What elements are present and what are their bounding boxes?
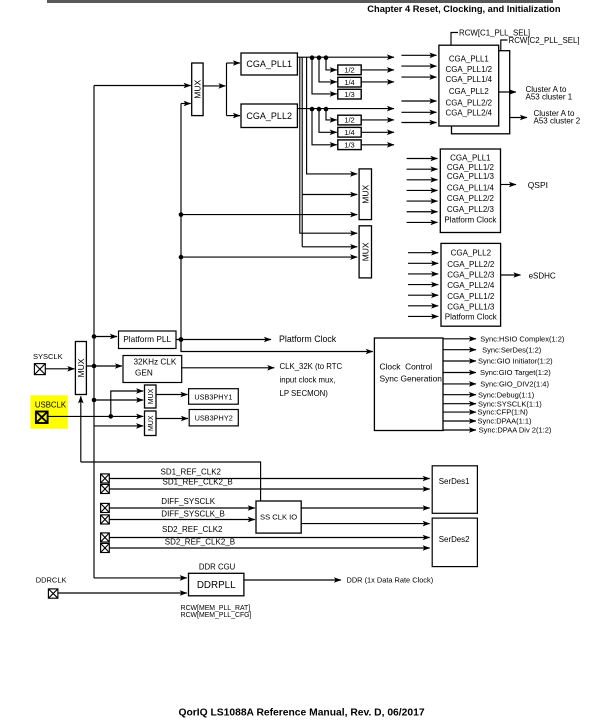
svg-text:CGA_PLL1: CGA_PLL1	[246, 59, 292, 69]
svg-text:CGA_PLL2: CGA_PLL2	[246, 111, 292, 121]
svg-text:eSDHC: eSDHC	[529, 271, 556, 280]
svg-text:DDR CGU: DDR CGU	[199, 563, 236, 572]
svg-text:Sync:DPAA(1:1): Sync:DPAA(1:1)	[478, 417, 533, 426]
svg-text:CGA_PLL1/2: CGA_PLL1/2	[447, 292, 495, 301]
svg-text:SD2_REF_CLK2_B: SD2_REF_CLK2_B	[165, 537, 235, 546]
svg-text:CGA_PLL2/2: CGA_PLL2/2	[447, 194, 495, 203]
svg-text:DDR (1x Data Rate Clock): DDR (1x Data Rate Clock)	[347, 576, 434, 585]
svg-text:MUX: MUX	[148, 388, 155, 404]
svg-text:Sync Generation: Sync Generation	[380, 373, 443, 383]
svg-text:MUX: MUX	[148, 415, 155, 431]
svg-text:DIFF_SYSCLK: DIFF_SYSCLK	[161, 497, 215, 506]
svg-text:1/4: 1/4	[344, 78, 354, 87]
svg-text:CGA_PLL2: CGA_PLL2	[451, 249, 492, 258]
svg-text:Platform Clock: Platform Clock	[444, 215, 497, 224]
svg-text:Platform Clock: Platform Clock	[445, 312, 498, 321]
svg-text:1/3: 1/3	[344, 140, 354, 149]
svg-text:CGA_PLL2/3: CGA_PLL2/3	[447, 205, 495, 214]
svg-text:RCW[MEM_PLL_RAT]: RCW[MEM_PLL_RAT]	[181, 605, 251, 612]
svg-text:Clock Control: Clock Control	[380, 361, 433, 371]
svg-text:Platform Clock: Platform Clock	[279, 334, 337, 344]
svg-text:Chapter 4 Reset, Clocking, and: Chapter 4 Reset, Clocking, and Initializ…	[367, 4, 561, 14]
svg-text:USB3PHY1: USB3PHY1	[194, 392, 232, 401]
svg-text:Sync:DPAA Div 2(1:2): Sync:DPAA Div 2(1:2)	[479, 426, 552, 435]
svg-text:LP SECMON): LP SECMON)	[280, 389, 329, 398]
svg-text:Sync:Debug(1:1): Sync:Debug(1:1)	[478, 390, 535, 399]
svg-text:SerDes2: SerDes2	[439, 535, 470, 544]
svg-text:A53 cluster 2: A53 cluster 2	[534, 116, 581, 125]
svg-text:input clock mux,: input clock mux,	[280, 375, 336, 384]
svg-text:CGA_PLL1/3: CGA_PLL1/3	[447, 172, 495, 181]
svg-text:RCW[C2_PLL_SEL]: RCW[C2_PLL_SEL]	[509, 36, 580, 45]
svg-text:CGA_PLL2/4: CGA_PLL2/4	[447, 281, 495, 290]
svg-text:DDRPLL: DDRPLL	[197, 580, 236, 591]
svg-text:1/4: 1/4	[344, 128, 354, 137]
svg-text:USB3PHY2: USB3PHY2	[195, 414, 233, 423]
svg-text:CGA_PLL1: CGA_PLL1	[449, 55, 489, 64]
svg-text:MUX: MUX	[192, 80, 202, 99]
svg-text:Sync:GIO Initiator(1:2): Sync:GIO Initiator(1:2)	[478, 357, 553, 366]
svg-text:MUX: MUX	[360, 242, 370, 261]
svg-text:32KHz CLK: 32KHz CLK	[134, 357, 177, 366]
svg-text:CGA_PLL1/4: CGA_PLL1/4	[446, 75, 493, 84]
svg-text:MUX: MUX	[76, 358, 86, 377]
svg-text:DDRCLK: DDRCLK	[36, 576, 67, 585]
svg-text:CGA_PLL1: CGA_PLL1	[450, 153, 491, 162]
svg-text:CGA_PLL1/4: CGA_PLL1/4	[447, 183, 495, 192]
svg-text:CGA_PLL1/3: CGA_PLL1/3	[447, 302, 495, 311]
svg-text:QorIQ LS1088A Reference Manual: QorIQ LS1088A Reference Manual, Rev. D, …	[178, 707, 424, 718]
svg-text:CGA_PLL2/2: CGA_PLL2/2	[447, 260, 495, 269]
svg-text:CGA_PLL2/4: CGA_PLL2/4	[446, 109, 493, 118]
svg-text:GEN: GEN	[135, 368, 153, 377]
svg-text:CGA_PLL2: CGA_PLL2	[449, 87, 489, 96]
svg-text:1/2: 1/2	[344, 116, 354, 125]
svg-text:1/2: 1/2	[344, 66, 354, 75]
svg-text:CGA_PLL1/2: CGA_PLL1/2	[447, 163, 495, 172]
svg-text:SYSCLK: SYSCLK	[33, 352, 63, 361]
svg-text:SS CLK IO: SS CLK IO	[260, 512, 297, 521]
svg-text:MUX: MUX	[360, 184, 370, 203]
svg-text:Sync:GIO Target(1:2): Sync:GIO Target(1:2)	[480, 368, 551, 377]
svg-text:Sync:SerDes(1:2): Sync:SerDes(1:2)	[482, 345, 542, 354]
svg-text:DIFF_SYSCLK_B: DIFF_SYSCLK_B	[161, 509, 225, 518]
svg-text:Sync:HSIO Complex(1:2): Sync:HSIO Complex(1:2)	[480, 334, 565, 343]
svg-text:Sync:GIO_DIV2(1:4): Sync:GIO_DIV2(1:4)	[480, 380, 549, 389]
svg-text:SerDes1: SerDes1	[439, 477, 470, 486]
svg-text:USBCLK: USBCLK	[35, 400, 67, 409]
svg-text:RCW[MEM_PLL_CFG]: RCW[MEM_PLL_CFG]	[181, 612, 252, 619]
svg-text:SD1_REF_CLK2: SD1_REF_CLK2	[161, 468, 222, 477]
svg-text:CGA_PLL2/2: CGA_PLL2/2	[446, 99, 493, 108]
svg-text:1/3: 1/3	[344, 90, 354, 99]
svg-text:CGA_PLL1/2: CGA_PLL1/2	[446, 65, 493, 74]
svg-text:Platform PLL: Platform PLL	[123, 334, 171, 344]
svg-text:QSPI: QSPI	[528, 180, 548, 190]
svg-text:CLK_32K (to RTC: CLK_32K (to RTC	[280, 362, 343, 371]
svg-text:A53 cluster 1: A53 cluster 1	[526, 92, 573, 101]
svg-text:SD2_REF_CLK2: SD2_REF_CLK2	[162, 525, 223, 534]
svg-text:Sync:CFP(1:N): Sync:CFP(1:N)	[478, 408, 529, 417]
svg-text:CGA_PLL2/3: CGA_PLL2/3	[447, 271, 495, 280]
